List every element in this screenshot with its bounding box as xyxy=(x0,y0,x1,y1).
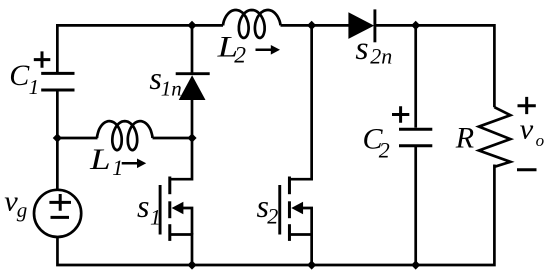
diode s1n triangle xyxy=(179,75,206,100)
svg-text:s: s xyxy=(355,31,368,67)
wire L2 right to diode s2n xyxy=(281,24,349,27)
svg-text:1: 1 xyxy=(112,155,123,180)
svg-text:o: o xyxy=(536,131,545,150)
wire L1 right to node B xyxy=(153,137,193,140)
wire node C to top-right corner and down to resistor R xyxy=(416,25,495,107)
svg-text:2n: 2n xyxy=(370,44,392,69)
transistor s1 channel dashes xyxy=(168,177,171,195)
wire node A down to source vg xyxy=(56,138,59,190)
svg-text:2: 2 xyxy=(379,138,390,163)
capacitor C2 xyxy=(399,129,432,146)
plus sign C1 xyxy=(34,51,51,67)
plus sign C2 xyxy=(392,106,409,122)
node dot top C2 xyxy=(411,21,420,30)
transistor s2 channel dashes xyxy=(288,177,291,195)
node dot top B xyxy=(187,21,196,30)
node dot bottom s2 xyxy=(307,260,316,269)
capacitor C2 branch top wire xyxy=(414,25,417,127)
svg-text:1: 1 xyxy=(150,205,161,230)
transistor s1 arrow xyxy=(172,202,184,214)
capacitor C2 bottom wire xyxy=(414,147,417,265)
diode s1n cathode bar xyxy=(176,72,210,75)
wire s2 drain column from top node down xyxy=(289,25,311,179)
node dot bottom s1 xyxy=(187,260,196,269)
plus sign vo xyxy=(518,97,536,114)
source vg circle xyxy=(34,190,81,237)
svg-text:1: 1 xyxy=(29,75,39,99)
svg-text:1n: 1n xyxy=(161,77,182,101)
plus-minus inside vg xyxy=(49,194,71,217)
inductor L2 xyxy=(223,10,281,38)
wire diode s2n to node C xyxy=(375,24,416,27)
svg-text:g: g xyxy=(17,198,28,222)
resistor R zigzag xyxy=(479,107,511,167)
wire vg bottom + bottom rail + resistor bottom stub xyxy=(57,165,494,266)
svg-text:s: s xyxy=(137,188,149,224)
diode s2n triangle xyxy=(348,12,374,39)
minus sign vo xyxy=(517,168,537,171)
wire node A to inductor L1 xyxy=(57,137,97,140)
svg-text:2: 2 xyxy=(234,43,246,69)
transistor s2 gate bar xyxy=(278,185,281,235)
wire C1 bottom to node A xyxy=(56,92,59,139)
transistor s1 gate bar xyxy=(159,185,162,235)
svg-text:C: C xyxy=(9,59,30,92)
transistor s2 source to bottom rail xyxy=(289,235,311,266)
node dot top s2 xyxy=(307,21,316,30)
diode s2n cathode bar xyxy=(373,9,376,42)
wire node B column: top node down to diode s1n xyxy=(191,25,194,73)
wire diode s1n anode down through node B to MOSFET s1 drain xyxy=(170,99,192,179)
node dot B mid xyxy=(187,133,196,142)
inductor L1 xyxy=(97,121,153,150)
transistor s2 arrow xyxy=(291,202,303,214)
svg-text:v: v xyxy=(520,115,534,146)
transistor s1 source to bottom rail xyxy=(170,235,192,266)
node dot A left mid xyxy=(53,133,62,142)
node dot bottom C2 xyxy=(411,260,420,269)
capacitor C1 xyxy=(41,73,74,90)
svg-text:R: R xyxy=(455,122,474,155)
svg-text:L: L xyxy=(89,143,111,176)
svg-text:2: 2 xyxy=(267,203,278,228)
wire top rail left: from C1 branch corner to L2 left terminal xyxy=(57,25,223,73)
